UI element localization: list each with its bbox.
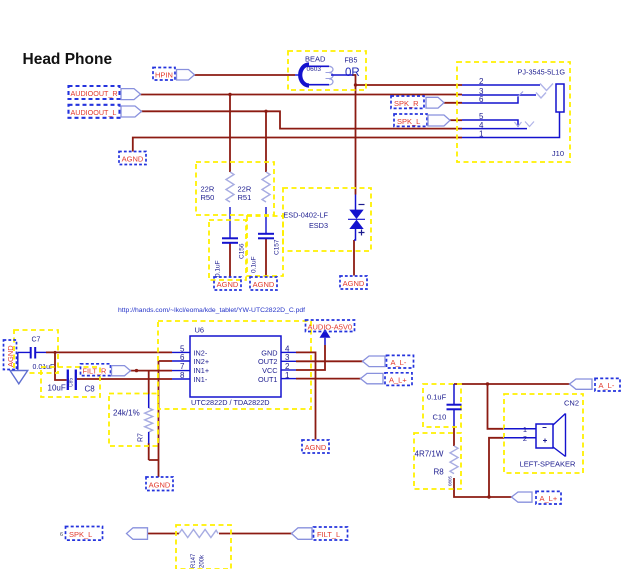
svg-text:7: 7 [180, 362, 185, 371]
pin 6 IN2+ [172, 360, 190, 362]
svg-text:C157: C157 [274, 239, 281, 255]
svg-text:200k: 200k [200, 554, 206, 568]
power symbol AUDIO-A5V0 arrow [320, 329, 331, 345]
wire R51 to C157 [265, 207, 267, 233]
wire C7 right to U6 pin 5 [36, 351, 47, 353]
wire SPK_L to R147 [148, 533, 180, 535]
wire C7 left to ground [18, 352, 30, 369]
ground symbol left [10, 371, 28, 384]
svg-text:AUDIO-A5V0: AUDIO-A5V0 [308, 322, 353, 331]
svg-text:OUT1: OUT1 [258, 375, 277, 384]
ground port AGND under U6 [302, 440, 329, 453]
wire SPK_L to J10 pin 5 [450, 119, 462, 121]
svg-text:1: 1 [285, 371, 290, 380]
wire C157 to AGND [265, 239, 267, 277]
pin 4 GND [281, 351, 296, 353]
port SPK_L bottom [60, 527, 148, 541]
wire C10 R8 chain [453, 426, 455, 446]
TVS diode ESD3 [283, 188, 371, 251]
resistor R51 [238, 172, 271, 202]
ground port AGND under R7 [146, 477, 173, 491]
node junction C8 tap [54, 351, 57, 354]
port FILT_L [292, 527, 348, 540]
svg-text:0.1uF: 0.1uF [215, 260, 222, 277]
svg-text:OUT2: OUT2 [258, 357, 277, 366]
svg-text:UTC2822D / TDA2822D: UTC2822D / TDA2822D [191, 398, 270, 407]
resistor R7 [109, 394, 158, 447]
svg-text:AUDIOOUT_L: AUDIOOUT_L [71, 108, 117, 117]
capacitor C157 [247, 216, 283, 276]
wire SPK_R to J10 pin 6 [444, 102, 462, 104]
svg-text:A_L+: A_L+ [540, 494, 558, 503]
wire U6 VCC pin 2 to power arrow [296, 345, 325, 370]
wire AGND to J10 pin 1 [133, 138, 462, 152]
pin 5 IN2- [172, 351, 190, 353]
svg-text:AGND: AGND [253, 280, 275, 289]
node junction R50 tap [228, 93, 231, 96]
wire R51 tap vertical [265, 111, 267, 172]
svg-text:0805: 0805 [448, 475, 453, 486]
pin 7 IN1+ [172, 370, 190, 372]
svg-text:SPK_R: SPK_R [394, 99, 419, 108]
wire speaker pin1 drop [488, 384, 505, 429]
pin 2 VCC [281, 369, 296, 371]
svg-text:AUDIOOUT_R: AUDIOOUT_R [71, 89, 118, 98]
port AUDIOOUT_R [69, 86, 141, 100]
port FILT_R [81, 364, 131, 376]
svg-text:A_L+: A_L+ [389, 375, 407, 384]
wire U6 OUT1 to A_L+ [296, 378, 361, 380]
svg-text:R7: R7 [138, 433, 145, 442]
ground port AGND under C157 [250, 277, 277, 290]
svg-text:10uF: 10uF [48, 384, 66, 393]
connector J10 [457, 62, 570, 162]
svg-text:ESD-0402-LF: ESD-0402-LF [283, 211, 328, 220]
node junction bead/ESD [354, 83, 357, 86]
wire U6 OUT2 to A_L- [296, 360, 363, 362]
svg-text:IN2+: IN2+ [194, 357, 210, 366]
svg-text:Head Phone: Head Phone [23, 51, 113, 68]
wire C156 to AGND [229, 244, 231, 277]
svg-text:AGND: AGND [122, 155, 144, 164]
svg-text:SPK_L: SPK_L [69, 530, 92, 539]
svg-text:C85: C85 [69, 378, 75, 387]
ground port AGND vertical far-left [4, 340, 17, 370]
svg-text:FB5: FB5 [345, 58, 358, 65]
wire AUDIOOUT_R to J10 pin 3 [141, 94, 463, 96]
svg-text:GND: GND [261, 348, 277, 357]
svg-text:IN2-: IN2- [194, 348, 208, 357]
svg-text:AGND: AGND [305, 443, 327, 452]
svg-text:A_L-: A_L- [391, 358, 407, 367]
port SPK_L [394, 114, 450, 126]
resistor R50 [201, 172, 235, 202]
svg-text:2: 2 [285, 362, 290, 371]
svg-text:AGND: AGND [217, 280, 239, 289]
svg-text:8: 8 [180, 371, 185, 380]
svg-text:AGND: AGND [343, 279, 365, 288]
svg-text:0.1uF: 0.1uF [251, 256, 258, 273]
svg-text:0.1uF: 0.1uF [427, 393, 447, 402]
svg-text:3: 3 [285, 353, 290, 362]
port HPIN [153, 68, 195, 81]
svg-text:6: 6 [180, 353, 185, 362]
pin 1 OUT1 [281, 378, 296, 380]
capacitor C7 [14, 330, 58, 373]
svg-text:C10: C10 [433, 413, 447, 422]
svg-text:R147: R147 [191, 553, 197, 568]
svg-text:4R7/1W: 4R7/1W [415, 450, 444, 459]
svg-text:SPK_L: SPK_L [397, 117, 420, 126]
svg-text:http://hands.com/~lkcl/eoma/kd: http://hands.com/~lkcl/eoma/kde_tablet/Y… [118, 307, 305, 314]
svg-text:IN1-: IN1- [194, 375, 208, 384]
svg-text:AGND: AGND [6, 345, 15, 367]
wire HPIN to bead [195, 74, 296, 76]
port A_L- at U6 [363, 355, 414, 368]
ground port AGND top-left [119, 152, 146, 165]
svg-text:FILT_R: FILT_R [83, 366, 107, 375]
svg-text:PJ-3545-5L1G: PJ-3545-5L1G [518, 68, 566, 77]
ferrite bead FB5 [288, 51, 366, 90]
wire C8 tap [55, 352, 67, 380]
wire R8 bottom to A_L+ net [454, 478, 512, 497]
svg-text:IN1+: IN1+ [194, 366, 210, 375]
svg-text:J10: J10 [552, 149, 564, 158]
svg-text:HPIN: HPIN [155, 70, 173, 79]
power port AUDIO-A5V0 [306, 320, 355, 332]
svg-text:CN2: CN2 [564, 399, 579, 408]
svg-text:R50: R50 [201, 193, 215, 202]
capacitor C8 [41, 367, 100, 397]
wire FILT_R to U6 pin 7 [131, 370, 173, 372]
port A_L+ at speaker [512, 491, 562, 504]
svg-text:R51: R51 [238, 193, 252, 202]
wire R7 top [148, 371, 150, 395]
svg-text:C7: C7 [32, 337, 41, 344]
svg-text:ESD3: ESD3 [309, 221, 328, 230]
ground port AGND under C156 [214, 277, 241, 290]
svg-text:C8: C8 [85, 385, 96, 394]
svg-text:BEAD: BEAD [305, 55, 326, 64]
capacitor C10 [423, 384, 462, 427]
op-amp U6 UTC2822D [158, 321, 311, 409]
svg-text:24k/1%: 24k/1% [113, 409, 140, 418]
node junction R51 tap [264, 110, 267, 113]
wire U6 GND pin 4 down to AGND [296, 352, 316, 439]
svg-text:FILT_L: FILT_L [317, 530, 340, 539]
svg-text:VCC: VCC [262, 366, 277, 375]
pin 8 IN1- [172, 378, 190, 380]
port A_L+ at U6 [361, 373, 413, 386]
node junction FILT_R [135, 369, 138, 372]
svg-text:AGND: AGND [149, 480, 171, 489]
port SPK_R [391, 96, 444, 108]
svg-text:C156: C156 [239, 243, 246, 259]
pin 3 OUT2 [281, 360, 296, 362]
resistor R50 and resistor R51 group box [196, 162, 274, 215]
svg-text:A_L-: A_L- [599, 381, 615, 390]
wire ESD vertical drop [355, 85, 357, 195]
wire AUDIOOUT_L to J10 pin 4 [142, 111, 463, 128]
port AUDIOOUT_L [69, 105, 142, 118]
wire speaker pin2 riser [489, 438, 504, 497]
node junction speaker pin2 [487, 495, 490, 498]
port A_L- at speaker [570, 378, 621, 391]
svg-text:0R: 0R [345, 67, 360, 79]
wire R50 to C156 [229, 207, 231, 238]
wire bead output to J10 pin 2 and down [352, 75, 462, 85]
wire ESD to AGND [353, 240, 355, 276]
svg-text:R8: R8 [434, 468, 445, 477]
resistor R147 [176, 525, 231, 569]
svg-text:LEFT-SPEAKER: LEFT-SPEAKER [520, 460, 576, 469]
svg-text:2: 2 [523, 434, 527, 443]
wire R147 to FILT_L [219, 533, 292, 535]
speaker connector CN2 [504, 394, 583, 473]
svg-text:U6: U6 [195, 326, 205, 335]
wire speaker top net A_L- [454, 383, 570, 385]
wire R50 tap vertical [229, 95, 231, 173]
wire U6 pin 6 down to AGND [149, 361, 172, 477]
resistor R8 [414, 433, 461, 489]
ground port AGND under ESD3 [340, 276, 367, 289]
svg-text:1: 1 [523, 425, 527, 434]
wire C8 to U6 pin 8 [77, 378, 172, 380]
node junction speaker pin1 [486, 382, 489, 385]
capacitor C156 [209, 220, 246, 280]
svg-text:6: 6 [60, 532, 63, 538]
